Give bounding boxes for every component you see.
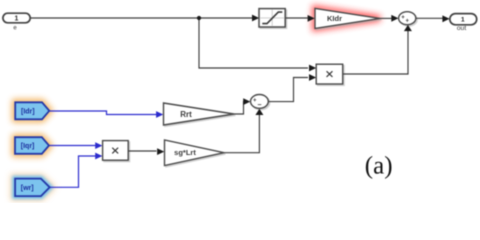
svg-text:sg*Lrt: sg*Lrt (174, 148, 196, 157)
svg-text:+: + (405, 19, 409, 25)
svg-text:1: 1 (461, 17, 465, 24)
svg-text:[wr]: [wr] (21, 185, 34, 192)
svg-text:(a): (a) (365, 152, 393, 179)
svg-text:out: out (457, 25, 467, 32)
svg-text:[Iqr]: [Iqr] (21, 143, 35, 150)
svg-text:e: e (13, 26, 17, 32)
svg-text:[Idr]: [Idr] (21, 109, 35, 116)
svg-text:1: 1 (15, 16, 19, 23)
svg-text:KIdr: KIdr (327, 14, 342, 23)
svg-text:−: − (257, 102, 261, 109)
svg-text:Rrt: Rrt (180, 110, 192, 119)
